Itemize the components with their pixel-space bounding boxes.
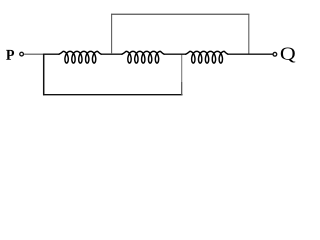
wire P terminal to node A <box>24 53 44 55</box>
wire node D down (right side of top branch) <box>248 14 250 54</box>
inductor L2 <box>122 51 164 63</box>
wire L2 to L3 through node C <box>164 53 186 55</box>
node Q label <box>281 48 296 63</box>
wire node C up (right side of bottom branch) <box>181 82 183 95</box>
wire bottom branch horizontal <box>43 94 182 96</box>
inductor L1 <box>59 51 101 63</box>
terminal Q (open circle) <box>273 52 277 56</box>
wire node B up (left side of top branch) <box>111 14 113 54</box>
wire top branch horizontal <box>111 13 249 15</box>
node P label <box>6 50 14 60</box>
terminal P (open circle) <box>20 52 24 56</box>
wire L3 through node D to terminal Q <box>228 53 273 55</box>
wire node A to inductor L1 <box>44 53 60 55</box>
inductor L3 <box>186 51 228 63</box>
wire L1 to L2 through node B <box>101 53 122 55</box>
wire node A down (left side of bottom branch) <box>43 54 45 96</box>
